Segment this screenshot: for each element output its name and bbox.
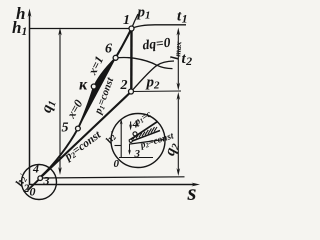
svg-text:0: 0 [30, 185, 36, 199]
balloon cluster point [38, 176, 43, 181]
svg-text:2: 2 [120, 78, 128, 93]
h2' level line [41, 177, 185, 178]
svg-text:к: к [79, 77, 88, 94]
point 6 [113, 55, 118, 60]
h axis arrowhead [28, 9, 32, 18]
detail wedge lower line [130, 131, 161, 143]
adiabat 1-2 [130, 29, 133, 92]
detail p1 line upper [129, 122, 158, 141]
svg-text:3: 3 [134, 148, 141, 160]
svg-text:5: 5 [62, 121, 69, 136]
detail mini v axis [120, 122, 122, 158]
svg-text:q1: q1 [39, 98, 59, 115]
q2 dimension line (h2 line to h2' line) [177, 95, 179, 173]
point K [91, 84, 96, 89]
p1 isobar stub above point 1 [132, 14, 139, 29]
q1 dimension line [59, 31, 61, 172]
svg-text:3: 3 [43, 174, 50, 188]
point 2 [129, 89, 134, 94]
detail circle [111, 114, 165, 168]
svg-text:p2: p2 [145, 75, 161, 92]
detail hatch strokes [133, 127, 157, 139]
detail mini h axis [119, 157, 153, 159]
p2 isobar stub above point 2 [131, 61, 174, 92]
h2 level line from 2 [131, 90, 181, 93]
svg-text:t2: t2 [182, 51, 193, 68]
point 5 [76, 126, 81, 131]
t2 isotherm from 6 [116, 57, 173, 68]
svg-text:0: 0 [114, 158, 120, 170]
balloon: line continuation through cluster [28, 178, 41, 190]
detail p2 line [130, 140, 164, 145]
svg-text:6: 6 [105, 42, 112, 57]
detail point circle [133, 132, 137, 136]
point 1 [129, 26, 134, 31]
detail lower arrow to axis [129, 144, 131, 153]
p1 wet-region chord 5-6 (bold) + lens fill [78, 58, 116, 129]
svg-text:4: 4 [32, 162, 39, 176]
x=0 saturation curve from origin through 5 to K (bold) [41, 88, 93, 176]
origin balloon circle [22, 165, 57, 200]
detail h2' tick [115, 145, 122, 147]
svg-text:1: 1 [123, 13, 130, 28]
detail cluster point 3 [129, 139, 132, 142]
detail down arrow to point 4 [130, 122, 132, 128]
x=1 saturation curve K to 6 [93, 58, 115, 88]
t1 isotherm curve [132, 25, 187, 29]
svg-text:s: s [187, 180, 197, 205]
h1 level line [30, 28, 130, 30]
svg-text:dq=0: dq=0 [142, 35, 172, 53]
lmax dimension line (t1 to h2 line) [177, 31, 179, 87]
s axis arrowhead [192, 183, 201, 187]
svg-text:p1: p1 [136, 5, 151, 22]
p2=const process line 3-2 (bold) [41, 92, 132, 178]
s axis [30, 184, 197, 186]
h axis [29, 13, 31, 185]
p1 superheat 6-1 (bold) [116, 29, 132, 58]
svg-text:t1: t1 [177, 9, 188, 26]
